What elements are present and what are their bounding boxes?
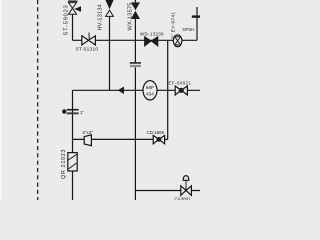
wire: bottom line H4 <box>135 190 200 192</box>
valve CD-1566 (globe) <box>153 135 164 143</box>
wire: HV-13134 branch riser <box>109 17 111 91</box>
wire: bypass riser V5 <box>167 40 169 139</box>
valve WD-13236 (filled) <box>145 37 158 46</box>
svg-text:3" EY-9741: 3" EY-9741 <box>171 12 177 39</box>
wire: riser from ST-59023 valve down to header <box>72 15 74 41</box>
inline strainer QR-21023 <box>68 153 77 171</box>
valve EF-60021 (globe) <box>175 86 187 95</box>
svg-text:QR 21023: QR 21023 <box>61 149 67 179</box>
svg-text:5"x3": 5"x3" <box>83 130 94 135</box>
reducer 5"x3" <box>84 135 91 146</box>
spectacle blind on WX riser <box>130 62 141 67</box>
check valve HV-13134 <box>105 0 114 16</box>
svg-text:DPSH: DPSH <box>183 27 195 32</box>
control valve EY-9741 (crossed ellipse) <box>173 35 182 47</box>
instrument bubble 68P 434 <box>143 81 157 100</box>
wire: WX-13575 riser <box>134 0 136 200</box>
valve ST-51310 with stem <box>82 33 96 46</box>
svg-text:HV-13134: HV-13134 <box>98 4 104 30</box>
svg-text:CA3091: CA3091 <box>175 197 191 201</box>
svg-text:1": 1" <box>80 110 84 115</box>
svg-text:ST-59023: ST-59023 <box>64 4 70 35</box>
svg-text:68P: 68P <box>146 85 154 90</box>
left page edge <box>0 0 2 200</box>
vent connection with cap <box>62 109 84 115</box>
wire: drop from header top right <box>196 7 198 40</box>
wire: branch H3 <box>73 138 168 140</box>
valve CA3091 with diaphragm actuator <box>181 176 192 196</box>
dashed battery-limit line <box>37 0 39 200</box>
flow arrow (left) <box>118 87 124 94</box>
valve WX-13575 (closed, filled) <box>131 2 140 19</box>
svg-text:434: 434 <box>146 92 154 97</box>
wire: drop leg from H2 at left <box>72 90 74 200</box>
wire: main header H1 <box>73 39 198 41</box>
svg-text:EF-60021: EF-60021 <box>169 80 192 85</box>
svg-text:CD-1566: CD-1566 <box>147 130 165 135</box>
off-page tick <box>192 15 200 17</box>
wire: flow line H2 <box>73 89 201 91</box>
svg-text:ST-51310: ST-51310 <box>76 46 99 52</box>
svg-text:WD-13236: WD-13236 <box>140 32 164 37</box>
svg-text:WX-13575: WX-13575 <box>128 2 134 30</box>
valve ST-59023 (vertical, with side pilot) <box>68 1 81 14</box>
